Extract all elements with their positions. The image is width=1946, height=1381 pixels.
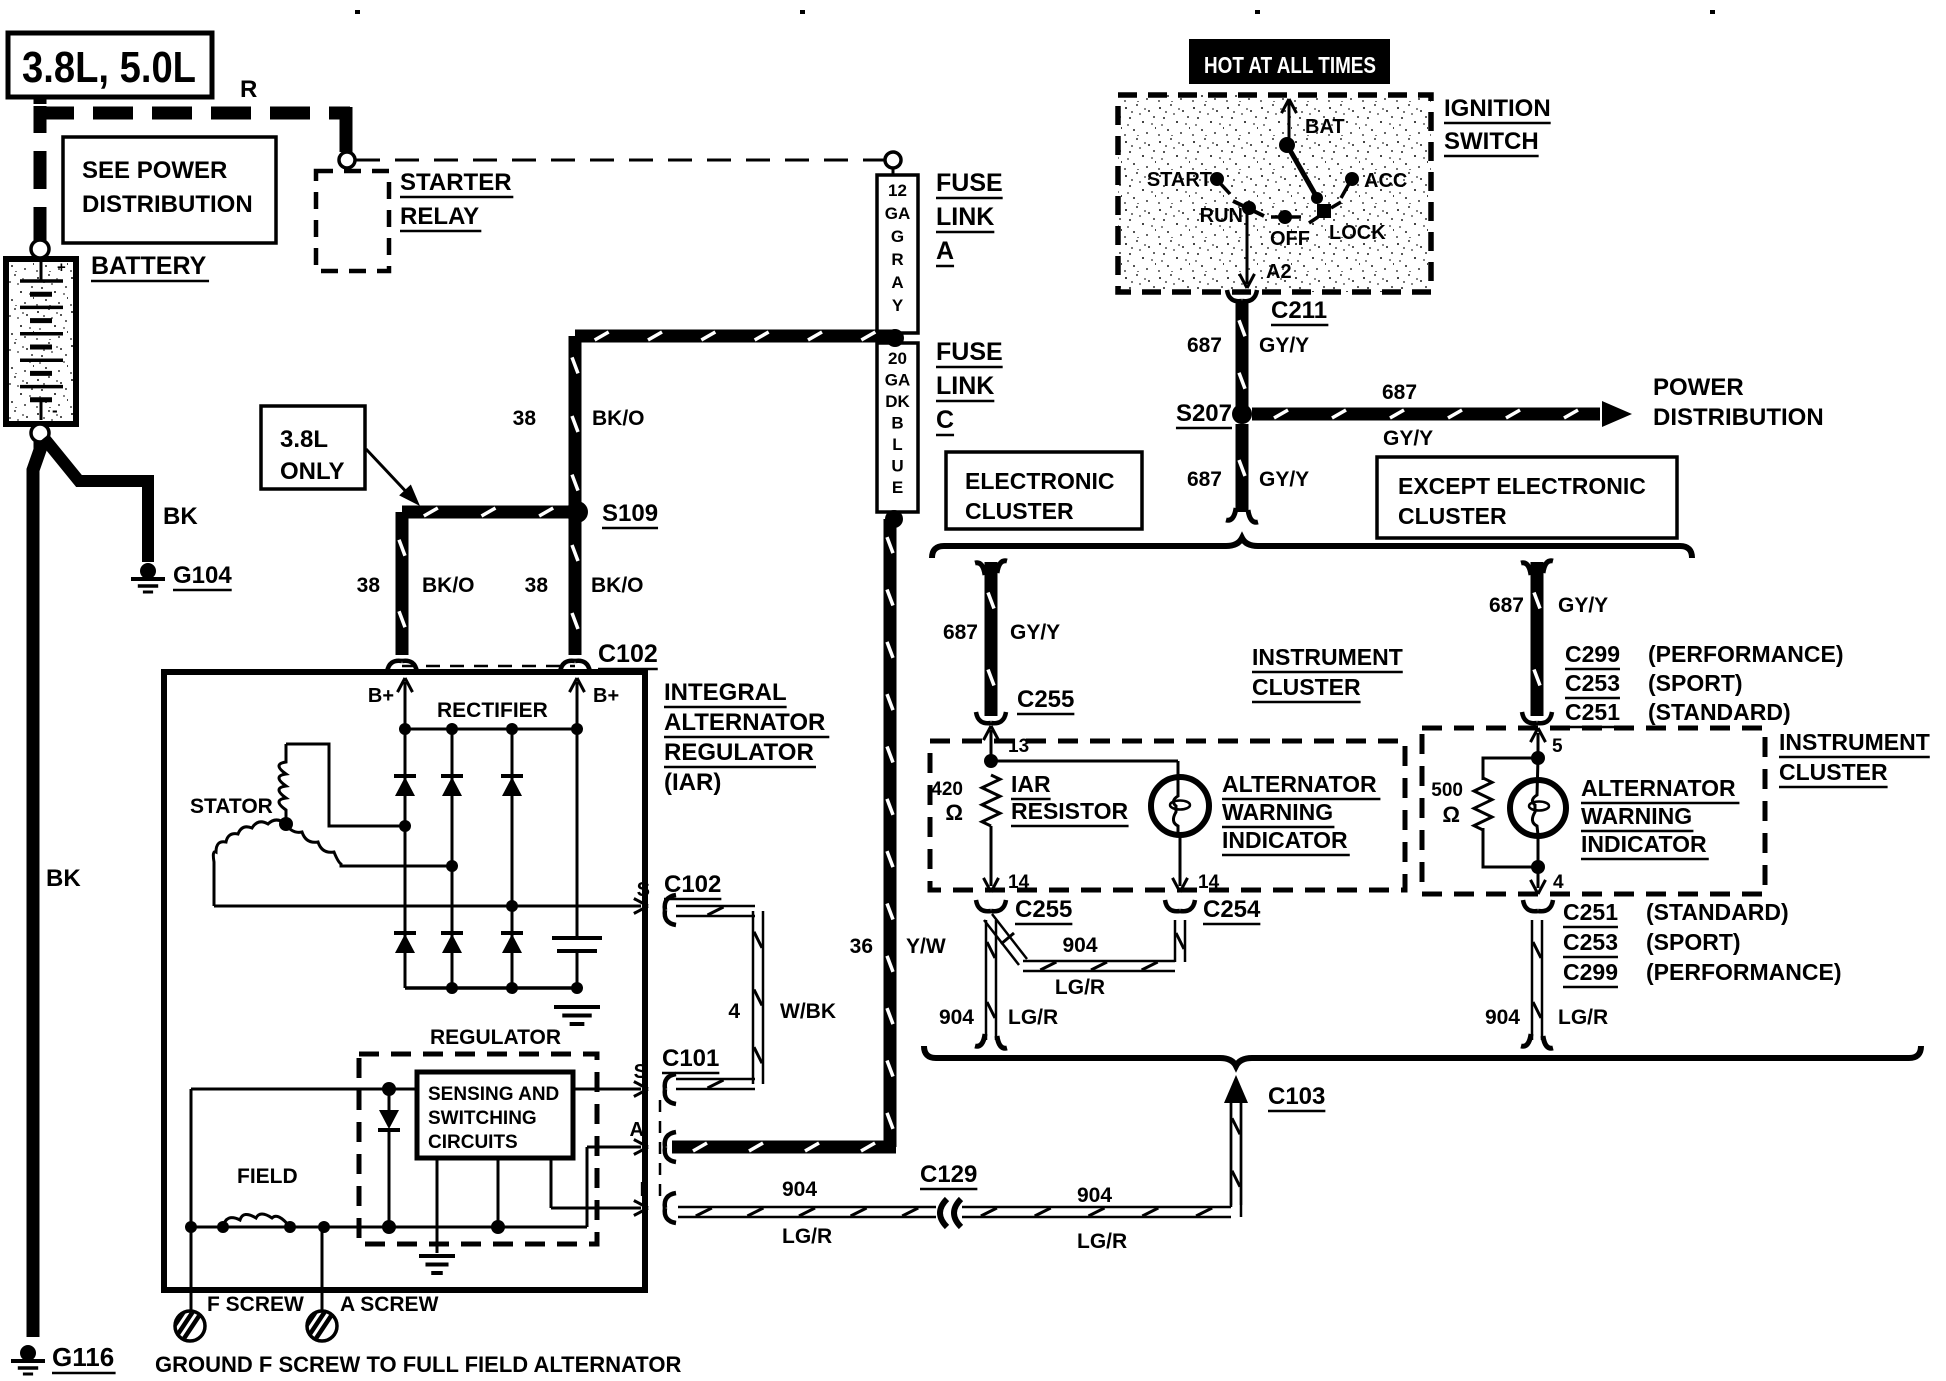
svg-text:A: A <box>630 1119 644 1141</box>
svg-text:CIRCUITS: CIRCUITS <box>428 1132 518 1153</box>
svg-text:38: 38 <box>525 574 549 597</box>
svg-text:C211: C211 <box>1271 297 1327 324</box>
svg-text:INDICATOR: INDICATOR <box>1222 827 1348 853</box>
svg-text:W/BK: W/BK <box>780 1000 836 1023</box>
svg-text:RESISTOR: RESISTOR <box>1011 798 1129 824</box>
svg-text:DISTRIBUTION: DISTRIBUTION <box>82 191 253 218</box>
svg-text:LINK: LINK <box>936 203 994 231</box>
svg-text:BK/O: BK/O <box>591 574 644 597</box>
svg-text:FIELD: FIELD <box>237 1165 298 1188</box>
svg-text:WARNING: WARNING <box>1581 803 1692 829</box>
svg-text:C: C <box>936 406 954 434</box>
svg-text:LG/R: LG/R <box>1055 976 1105 999</box>
svg-text:IAR: IAR <box>1011 771 1051 797</box>
svg-text:START: START <box>1147 169 1212 191</box>
svg-text:GY/Y: GY/Y <box>1383 427 1433 450</box>
svg-text:INSTRUMENT: INSTRUMENT <box>1252 644 1403 670</box>
svg-text:STARTER: STARTER <box>400 169 512 196</box>
svg-text:BK: BK <box>163 503 198 530</box>
svg-text:687: 687 <box>1187 334 1222 357</box>
svg-text:POWER: POWER <box>1653 374 1744 401</box>
svg-text:C299: C299 <box>1563 959 1618 985</box>
svg-text:A: A <box>936 237 954 265</box>
svg-text:REGULATOR: REGULATOR <box>664 739 814 766</box>
svg-text:3.8L, 5.0L: 3.8L, 5.0L <box>22 43 196 92</box>
svg-text:ALTERNATOR: ALTERNATOR <box>1222 771 1377 797</box>
svg-text:GROUND F SCREW TO FULL FIELD A: GROUND F SCREW TO FULL FIELD ALTERNATOR <box>155 1352 681 1376</box>
svg-text:L: L <box>892 435 902 454</box>
svg-text:A: A <box>891 273 903 292</box>
svg-text:BK/O: BK/O <box>592 407 645 430</box>
svg-text:LG/R: LG/R <box>1008 1006 1058 1029</box>
svg-text:B: B <box>891 414 903 433</box>
svg-text:904: 904 <box>1485 1006 1520 1029</box>
svg-text:S109: S109 <box>602 500 658 527</box>
svg-text:B+: B+ <box>368 685 394 707</box>
svg-text:GY/Y: GY/Y <box>1259 468 1309 491</box>
svg-text:ELECTRONIC: ELECTRONIC <box>965 468 1115 494</box>
svg-text:INSTRUMENT: INSTRUMENT <box>1779 729 1930 755</box>
svg-text:OFF: OFF <box>1270 228 1310 250</box>
svg-text:RELAY: RELAY <box>400 203 479 230</box>
svg-text:687: 687 <box>1187 468 1222 491</box>
svg-text:R: R <box>891 250 903 269</box>
svg-text:RUN: RUN <box>1200 205 1243 227</box>
svg-text:LOCK: LOCK <box>1329 222 1386 244</box>
svg-text:GY/Y: GY/Y <box>1010 621 1060 644</box>
svg-text:LINK: LINK <box>936 372 994 400</box>
svg-text:14: 14 <box>1008 872 1030 893</box>
svg-text:DK: DK <box>885 392 910 411</box>
svg-text:G: G <box>891 227 904 246</box>
svg-text:13: 13 <box>1008 736 1029 757</box>
svg-text:EXCEPT ELECTRONIC: EXCEPT ELECTRONIC <box>1398 473 1646 499</box>
svg-text:(PERFORMANCE): (PERFORMANCE) <box>1648 641 1844 667</box>
svg-text:904: 904 <box>1077 1184 1112 1207</box>
svg-text:F SCREW: F SCREW <box>207 1293 304 1316</box>
svg-text:A SCREW: A SCREW <box>340 1293 439 1316</box>
svg-text:CLUSTER: CLUSTER <box>1779 759 1888 785</box>
svg-text:20: 20 <box>888 349 907 368</box>
svg-text:CLUSTER: CLUSTER <box>965 498 1074 524</box>
svg-text:LG/R: LG/R <box>782 1225 832 1248</box>
svg-text:C253: C253 <box>1565 670 1620 696</box>
svg-text:ACC: ACC <box>1364 170 1407 192</box>
svg-text:38: 38 <box>513 407 537 430</box>
svg-text:4: 4 <box>1553 872 1564 893</box>
svg-text:C254: C254 <box>1203 896 1261 923</box>
svg-text:SWITCHING: SWITCHING <box>428 1108 537 1129</box>
svg-text:C251: C251 <box>1563 899 1618 925</box>
svg-text:Ω: Ω <box>1442 802 1460 827</box>
svg-text:INTEGRAL: INTEGRAL <box>664 679 787 706</box>
svg-text:U: U <box>891 457 903 476</box>
svg-text:S: S <box>637 879 650 901</box>
svg-text:ONLY: ONLY <box>280 458 344 485</box>
svg-text:500: 500 <box>1431 780 1463 801</box>
svg-text:STATOR: STATOR <box>190 795 273 818</box>
svg-text:C299: C299 <box>1565 641 1620 667</box>
svg-text:S: S <box>634 1061 647 1083</box>
svg-text:FUSE: FUSE <box>936 338 1003 366</box>
svg-text:G104: G104 <box>173 562 232 589</box>
svg-text:Y/W: Y/W <box>906 935 946 958</box>
svg-text:HOT AT ALL TIMES: HOT AT ALL TIMES <box>1204 52 1376 78</box>
svg-text:RECTIFIER: RECTIFIER <box>437 699 548 722</box>
svg-text:SWITCH: SWITCH <box>1444 128 1539 155</box>
svg-text:C103: C103 <box>1268 1083 1325 1110</box>
svg-text:SEE POWER: SEE POWER <box>82 157 227 184</box>
svg-text:GY/Y: GY/Y <box>1558 594 1608 617</box>
svg-text:(PERFORMANCE): (PERFORMANCE) <box>1646 959 1842 985</box>
svg-text:C251: C251 <box>1565 699 1620 725</box>
svg-text:B+: B+ <box>593 685 619 707</box>
svg-text:687: 687 <box>1489 594 1524 617</box>
svg-text:REGULATOR: REGULATOR <box>430 1026 561 1049</box>
svg-text:C129: C129 <box>920 1161 977 1188</box>
svg-text:DISTRIBUTION: DISTRIBUTION <box>1653 404 1824 431</box>
svg-text:4: 4 <box>728 1000 740 1023</box>
svg-text:687: 687 <box>943 621 978 644</box>
svg-text:R: R <box>240 76 257 103</box>
svg-text:687: 687 <box>1382 381 1417 404</box>
svg-text:BK/O: BK/O <box>422 574 475 597</box>
svg-text:12: 12 <box>888 181 907 200</box>
svg-text:Ω: Ω <box>945 800 963 825</box>
svg-text:(SPORT): (SPORT) <box>1646 929 1741 955</box>
svg-text:(SPORT): (SPORT) <box>1648 670 1743 696</box>
svg-text:36: 36 <box>850 935 873 958</box>
svg-text:(IAR): (IAR) <box>664 769 721 796</box>
svg-text:Y: Y <box>892 296 904 315</box>
svg-text:-: - <box>52 401 58 420</box>
svg-text:A2: A2 <box>1266 261 1292 283</box>
svg-text:(STANDARD): (STANDARD) <box>1646 899 1789 925</box>
svg-text:GA: GA <box>885 204 911 223</box>
svg-text:C253: C253 <box>1563 929 1618 955</box>
svg-text:LG/R: LG/R <box>1077 1230 1127 1253</box>
svg-text:I: I <box>639 1179 645 1201</box>
svg-text:ALTERNATOR: ALTERNATOR <box>664 709 825 736</box>
svg-text:GA: GA <box>885 371 911 390</box>
svg-text:S207: S207 <box>1176 400 1232 427</box>
svg-text:BATTERY: BATTERY <box>91 252 207 280</box>
svg-text:CLUSTER: CLUSTER <box>1252 674 1361 700</box>
svg-text:E: E <box>892 478 903 497</box>
svg-text:904: 904 <box>1062 934 1097 957</box>
svg-text:GY/Y: GY/Y <box>1259 334 1309 357</box>
svg-text:ALTERNATOR: ALTERNATOR <box>1581 775 1736 801</box>
svg-text:WARNING: WARNING <box>1222 799 1333 825</box>
svg-text:G116: G116 <box>52 1342 114 1372</box>
svg-text:420: 420 <box>931 779 963 800</box>
svg-text:14: 14 <box>1198 872 1220 893</box>
svg-text:C255: C255 <box>1015 896 1072 923</box>
svg-text:C102: C102 <box>598 640 658 668</box>
svg-text:904: 904 <box>939 1006 974 1029</box>
svg-text:BK: BK <box>46 865 81 892</box>
svg-text:C101: C101 <box>662 1045 719 1072</box>
svg-text:SENSING AND: SENSING AND <box>428 1084 559 1105</box>
svg-text:CLUSTER: CLUSTER <box>1398 503 1507 529</box>
svg-text:38: 38 <box>357 574 381 597</box>
svg-text:5: 5 <box>1552 736 1563 757</box>
svg-text:C255: C255 <box>1017 686 1074 713</box>
svg-text:INDICATOR: INDICATOR <box>1581 831 1707 857</box>
svg-text:904: 904 <box>782 1178 817 1201</box>
svg-text:+: + <box>57 259 66 276</box>
svg-text:LG/R: LG/R <box>1558 1006 1608 1029</box>
svg-text:IGNITION: IGNITION <box>1444 95 1551 122</box>
svg-text:FUSE: FUSE <box>936 169 1003 197</box>
svg-text:(STANDARD): (STANDARD) <box>1648 699 1791 725</box>
svg-text:BAT: BAT <box>1305 116 1345 138</box>
svg-text:3.8L: 3.8L <box>280 426 328 453</box>
